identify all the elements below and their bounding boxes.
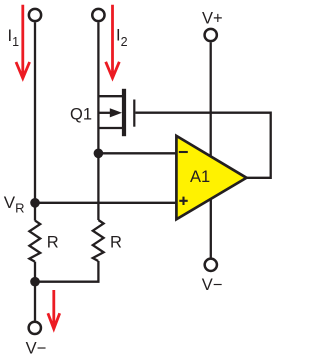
wire: Q1 source/body stub with arrow <box>98 112 113 114</box>
wire: left rail lower (resistor bottom to V- terminal) <box>34 262 36 321</box>
svg-text:I1: I1 <box>8 27 20 49</box>
op-amp plus input symbol <box>179 197 187 205</box>
svg-text:R: R <box>47 234 59 252</box>
terminal circle V+ <box>205 29 217 41</box>
terminal circle V- bottom left <box>29 322 41 334</box>
transistor Q1 gate bar <box>133 100 135 127</box>
resistor R2 zigzag <box>93 220 104 261</box>
svg-text:R: R <box>110 234 122 252</box>
svg-text:I2: I2 <box>116 26 128 48</box>
op-amp minus input symbol <box>179 151 188 153</box>
svg-text:A1: A1 <box>190 168 210 186</box>
svg-text:Q1: Q1 <box>70 106 92 124</box>
terminal circle I2 <box>92 9 104 21</box>
svg-text:VR: VR <box>4 193 25 215</box>
transistor Q1 channel bar <box>122 89 126 136</box>
current arrow I2 (red) <box>106 5 120 78</box>
wire: left rail top (terminal I1 to node VR) <box>34 22 36 220</box>
wire: V- supply stub from op-amp bottom edge <box>210 195 212 258</box>
wire: gate to feedback loop (output to gate of Q1) <box>135 113 270 178</box>
wire: R2 bottom to bottom connector <box>35 261 98 282</box>
wire: Q1 drain stub <box>98 95 123 97</box>
current arrow bottom (red) <box>48 290 60 329</box>
wire: VR node to op-amp + input <box>35 202 176 204</box>
svg-text:V+: V+ <box>202 9 223 27</box>
terminal circle V- right <box>205 259 217 271</box>
resistor R1 zigzag <box>29 221 40 262</box>
op-amp A1 triangle <box>176 136 246 219</box>
Q1 body arrowhead <box>110 108 122 117</box>
junction node bottom (resistors common) <box>30 277 40 287</box>
junction node at Q1 source / R2 / inverting input <box>94 149 104 159</box>
wire: inverting input (node to op-amp - input) <box>98 152 176 154</box>
wire: V+ supply stub to op-amp top edge <box>210 42 212 160</box>
wire: Q1 lower source stub <box>98 127 123 129</box>
junction node VR <box>30 198 40 208</box>
svg-text:V−: V− <box>202 276 223 294</box>
current arrow I1 (red) <box>16 5 30 79</box>
terminal circle I1 <box>29 9 41 21</box>
svg-text:V−: V− <box>26 340 47 358</box>
wire: second rail (terminal I2 down to resistor R2 top) <box>97 22 99 220</box>
